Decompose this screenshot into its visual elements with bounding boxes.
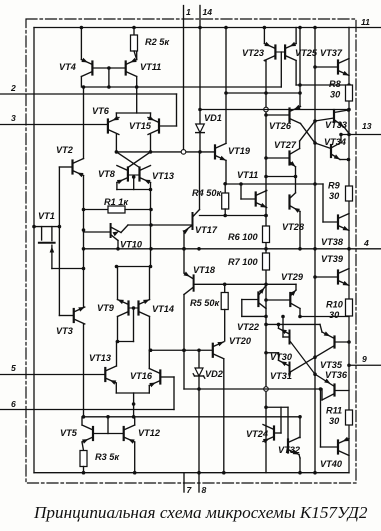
label VT16 [130, 371, 153, 381]
transistor VT1 [39, 227, 55, 269]
node H93 left [224, 91, 228, 95]
label VT1 [38, 211, 55, 221]
node VT34 emitter x349 [347, 158, 351, 162]
wire VT1 top [34, 226, 59, 228]
caption [33, 503, 368, 522]
node VT19 emitter junction [223, 182, 227, 186]
label VT8 [98, 169, 116, 179]
svg-text:VT24: VT24 [246, 429, 268, 439]
wire VT8 emitter stub [116, 183, 118, 190]
node H268 corner [82, 267, 86, 271]
wire VT26 base [266, 114, 290, 116]
wire x299 mid segment [299, 309, 301, 317]
node H151 right [149, 150, 153, 154]
node pin14 rail [198, 26, 202, 30]
svg-text:VT35: VT35 [320, 360, 343, 370]
wire VT27 base [266, 157, 290, 159]
svg-text:3: 3 [11, 113, 16, 123]
svg-text:R5 50к: R5 50к [190, 298, 221, 308]
node H248 x199 [197, 247, 201, 251]
node VT11m base tap [239, 182, 243, 186]
label R4 [192, 188, 223, 198]
wire VT9 emitter stub [117, 267, 119, 300]
transistor VT20 [213, 342, 224, 359]
label VT29 [281, 272, 304, 282]
svg-text:R3 5к: R3 5к [95, 452, 120, 462]
node H85 right [347, 83, 351, 87]
wire H248 bus [84, 248, 316, 250]
diode VD1 [196, 110, 205, 152]
svg-text:4: 4 [363, 238, 369, 248]
wire right output column [348, 28, 350, 473]
wire mid column [150, 190, 152, 267]
label VT33 [325, 120, 347, 130]
node VT31 emitter x266 [264, 351, 268, 355]
wire VT3 emitter down [83, 324, 85, 417]
svg-text:R9: R9 [328, 181, 341, 191]
node H151 left [115, 150, 119, 154]
transistor VT33 [334, 110, 349, 133]
label VT4 [59, 62, 76, 72]
label VD1 [204, 113, 222, 123]
wire H215 link [200, 215, 267, 217]
wire VT15 collector stub [150, 135, 152, 152]
label R7 [228, 257, 259, 267]
label VT13 lower [89, 353, 111, 363]
wire H93 bias [226, 92, 300, 94]
svg-text:R11: R11 [326, 406, 342, 416]
node VT23 emitter rail [263, 26, 267, 30]
wire top supply rail [34, 27, 349, 29]
node H176 right [294, 175, 298, 179]
wire VT6 emitter stub [115, 113, 117, 118]
pin 4 stub [315, 248, 381, 250]
wire VT17 base [128, 224, 193, 226]
label VT39 [321, 254, 344, 264]
wire VT16 collector stub [148, 350, 150, 368]
transistor VT31 [266, 353, 290, 376]
node VT39 base [313, 275, 317, 279]
svg-text:R1 1к: R1 1к [104, 197, 129, 207]
pin 3 stub [0, 124, 108, 126]
label VT2 [56, 145, 74, 155]
wire VT25 emitter up [295, 28, 297, 44]
wire VT23 emitter up [263, 28, 265, 44]
svg-text:R8: R8 [329, 79, 342, 89]
node H93 right [298, 91, 302, 95]
wire H389 bus [184, 388, 322, 390]
wire VT4 VT11 base tie [92, 67, 125, 69]
transistor VT11 middle [256, 191, 267, 208]
svg-text:VT31: VT31 [270, 371, 292, 381]
label VT6 [92, 106, 110, 116]
wire bias column x315 [314, 28, 316, 473]
node R3 bottom [82, 471, 86, 475]
wire VT11m collector [265, 190, 268, 192]
node H284 x225 [223, 283, 227, 287]
wire left rail [33, 28, 35, 473]
wire VT24 base link [274, 407, 281, 433]
node VT33 base [313, 119, 317, 123]
transistor VT34 [331, 135, 349, 160]
transistor VT26 [290, 105, 301, 124]
pin 4 label [363, 238, 369, 248]
wire VT23 VT25 base tie [275, 51, 285, 53]
node VT10 collector [116, 247, 120, 251]
svg-text:5: 5 [11, 363, 16, 373]
node VT20 base x199 [197, 348, 201, 352]
label VT14 [152, 304, 174, 314]
node R4 bottom [223, 214, 227, 218]
transistor VT35 [320, 324, 349, 347]
node pair tie mid [132, 306, 136, 310]
label VT28 [282, 222, 305, 232]
wire VT5 VT12 base tie [93, 433, 124, 435]
wire VT5 emitter stub [82, 442, 84, 451]
svg-text:6: 6 [11, 399, 16, 409]
svg-text:VT11: VT11 [237, 170, 258, 180]
label VT24 [246, 429, 268, 439]
pin 7 label [187, 485, 193, 495]
transistor VT11 top [126, 58, 137, 77]
wire emitter bracket [117, 189, 151, 191]
svg-text:14: 14 [203, 7, 213, 17]
label VT26 [269, 121, 292, 131]
wire VT19 collector up [225, 28, 227, 144]
wire VT4 collector down [80, 77, 82, 88]
svg-text:VT19: VT19 [228, 146, 251, 156]
node VT4 emitter rail [80, 26, 84, 30]
node H266 left [115, 265, 119, 269]
node VT37 base [313, 65, 317, 69]
svg-text:VT40: VT40 [320, 459, 343, 469]
node H407 left [264, 405, 268, 409]
pin 11 label [361, 17, 370, 27]
resistor R6 [263, 226, 270, 243]
svg-text:VT37: VT37 [320, 48, 343, 58]
label VT40 [320, 459, 343, 469]
svg-text:VT6: VT6 [92, 106, 110, 116]
wire tail drop [136, 87, 138, 113]
wire cross diag 2 [128, 152, 151, 168]
svg-text:R6 100: R6 100 [228, 232, 259, 242]
transistor VT10 [111, 224, 128, 249]
svg-text:13: 13 [362, 121, 372, 131]
svg-text:VT38: VT38 [321, 237, 344, 247]
transistor VT32 [288, 438, 299, 455]
node VT2 base junction [58, 225, 62, 229]
wire VT40 base [321, 389, 339, 447]
pin 14 label [203, 7, 213, 17]
wire cross diag VT26 [301, 124, 316, 144]
transistor VT14 [139, 300, 150, 317]
wire VT33 base [315, 118, 334, 121]
label VT37 [320, 48, 343, 58]
svg-text:R4 50к: R4 50к [192, 188, 223, 198]
label R6 [228, 232, 259, 242]
wire VT12 emitter down [134, 442, 136, 473]
label R11 [326, 406, 342, 427]
svg-text:VD2: VD2 [205, 369, 224, 379]
svg-text:VT20: VT20 [229, 336, 252, 346]
transistor VT13 upper [140, 166, 151, 185]
svg-text:VT12: VT12 [138, 428, 161, 438]
wire VT39 base [315, 276, 338, 278]
node H93 x266 [264, 91, 268, 95]
node bracket drop mid [132, 402, 136, 406]
node VD2 rail [197, 471, 201, 475]
svg-text:VT3: VT3 [56, 326, 73, 336]
node H417 right [298, 415, 302, 419]
node VT14 collector [149, 348, 153, 352]
transistor VT6 [108, 116, 119, 135]
svg-text:VT32: VT32 [278, 445, 301, 455]
svg-text:30: 30 [329, 416, 340, 426]
wire center column [265, 61, 267, 473]
wire VT6 collector stub [115, 135, 117, 152]
pin 9 label [362, 354, 367, 364]
wire VT34 base [315, 143, 331, 149]
transistor VT24 [263, 425, 274, 444]
node VD1 top [198, 108, 202, 112]
node H248 x300 [298, 247, 302, 251]
wire H324 bus [266, 323, 320, 325]
wire VT11m base [241, 184, 256, 199]
node H389 x320 [319, 387, 323, 391]
label VT20 [229, 336, 252, 346]
svg-text:VT29: VT29 [281, 272, 304, 282]
svg-text:VT16: VT16 [130, 371, 153, 381]
transistor VT30 [279, 324, 290, 343]
node H85 x299 [298, 83, 302, 87]
transistor VT2 [73, 159, 84, 178]
node base riser top [106, 415, 110, 419]
svg-text:2: 2 [10, 83, 16, 93]
label VT11 middle [237, 170, 258, 180]
node H109 R8 join [347, 108, 351, 112]
svg-text:VT23: VT23 [242, 48, 264, 58]
label R10 [326, 300, 344, 321]
transistor VT4 [81, 58, 92, 77]
node tie mid [132, 175, 136, 179]
pin 1 label [186, 7, 191, 17]
pin 2 stub [0, 93, 177, 95]
wire VT8 VT13 base tie [128, 174, 140, 176]
pin 2 label [10, 83, 16, 93]
label VT34 [324, 137, 346, 147]
svg-text:VT26: VT26 [269, 121, 292, 131]
wire VT22 base L [242, 300, 266, 317]
wire VT16 emitter stub [148, 386, 150, 394]
svg-text:VT30: VT30 [270, 352, 293, 362]
label VT17 [195, 225, 218, 235]
wire VT32 emitter stub [299, 455, 300, 473]
wire VT16 base link [160, 377, 174, 410]
label VT23 [242, 48, 264, 58]
wire VT11 emitter up [136, 51, 138, 60]
wire x299 top segment [299, 28, 301, 107]
label R3 [95, 452, 120, 462]
svg-text:VT4: VT4 [59, 62, 76, 72]
svg-text:VT11: VT11 [140, 62, 161, 72]
resistor R5 [221, 284, 228, 341]
node H248 left end [82, 247, 86, 251]
label VT15 [129, 121, 152, 131]
label VT22 [237, 322, 260, 332]
node H184 x315 [313, 182, 317, 186]
label VT12 [138, 428, 161, 438]
wire VT12 collector stub [134, 417, 136, 425]
pin 8 stub [198, 473, 200, 492]
node VT11 collector [135, 85, 139, 89]
node H248 x150 [149, 247, 153, 251]
node VT17 base x151 [149, 223, 153, 227]
wire VT32 collector stub [299, 437, 300, 439]
label VT11 top [140, 62, 161, 72]
svg-text:VT13: VT13 [89, 353, 111, 363]
resistor R8 [346, 85, 353, 101]
pin 11 stub [349, 27, 381, 29]
wire VT11 collector down [136, 77, 138, 88]
svg-text:VT33: VT33 [325, 120, 347, 130]
node VT1 rail junction [32, 225, 36, 229]
node base tie mid [107, 66, 111, 70]
wire VT2 base column [58, 167, 60, 316]
transistor VT19 [215, 143, 226, 160]
node P13 x349 [347, 133, 351, 137]
transistor VT13 lower [105, 366, 116, 385]
node H248 x184 [182, 247, 186, 251]
svg-text:VT15: VT15 [129, 121, 152, 131]
node VT4 collector [82, 85, 86, 89]
svg-text:VT10: VT10 [120, 240, 143, 250]
wire bottom rail [34, 472, 349, 474]
wire VT3 base [59, 315, 73, 317]
label VT30 [270, 352, 293, 362]
wire lower bracket [116, 392, 149, 394]
transistor VT5 [82, 425, 93, 444]
node x315 rail bottom [313, 471, 317, 475]
pin 9 stub [349, 364, 381, 366]
wire VT28 emitter stub [299, 212, 301, 249]
wire VT32 base drop [287, 407, 289, 439]
svg-text:VT13: VT13 [152, 171, 174, 181]
label R2 [145, 37, 170, 47]
svg-text:VT18: VT18 [193, 265, 216, 275]
svg-text:VT34: VT34 [324, 137, 346, 147]
wire VT10 base [84, 231, 111, 233]
node VT12 emitter rail [133, 471, 137, 475]
wire VT13 emitter stub [150, 183, 152, 190]
resistor R11 [346, 410, 353, 425]
label VT25 [295, 48, 318, 58]
svg-text:9: 9 [362, 354, 367, 364]
node R1 right [149, 208, 153, 212]
svg-text:VT39: VT39 [321, 254, 344, 264]
wire H109 bias line [200, 109, 349, 111]
node H284 x266 [264, 283, 268, 287]
label VT36 [325, 370, 348, 380]
pin 1 stub [183, 6, 185, 152]
wire VT30 base link [283, 317, 290, 338]
wire VT19 emitter stub [224, 160, 227, 183]
node VT22 base tie [264, 315, 268, 319]
node VT5 collector [82, 415, 86, 419]
pin 5 label [11, 363, 16, 373]
label VT35 [320, 360, 343, 370]
transistor VT22 [258, 286, 266, 309]
label VT10 [120, 240, 143, 250]
diode VD2 [193, 350, 205, 472]
svg-text:Принципиальная схема микросхем: Принципиальная схема микросхемы К157УД2 [33, 503, 368, 522]
transistor VT27 [290, 141, 300, 177]
label VT9 [97, 303, 115, 313]
wire VT2 base [59, 166, 72, 168]
node VT18 base x350 [182, 348, 186, 352]
wire VT15 base [159, 94, 177, 126]
node VT27 base [264, 156, 268, 160]
transistor VT3 [74, 307, 85, 324]
node H109 right [347, 108, 351, 112]
node x315 rail top [313, 26, 317, 30]
transistor VT12 [124, 425, 135, 444]
svg-text:VT14: VT14 [152, 304, 174, 314]
node x266 H215 [264, 214, 268, 218]
node diag1 x315 [313, 372, 317, 376]
wire VT14 emitter stub [149, 267, 151, 300]
label VT19 [228, 146, 251, 156]
node bracket right [149, 188, 153, 192]
wire H151 bus [116, 151, 215, 153]
pin 6 stub [0, 409, 174, 411]
svg-text:VT9: VT9 [97, 303, 115, 313]
wire VT30 collector diag [290, 341, 335, 387]
svg-text:8: 8 [202, 485, 207, 495]
label VT31 [270, 371, 292, 381]
node VD1 bottom [198, 150, 202, 154]
pin 6 label [11, 399, 16, 409]
node P9 x349 [347, 363, 351, 367]
svg-text:30: 30 [329, 310, 340, 320]
label VT3 [56, 326, 73, 336]
label R1 [104, 197, 129, 207]
wire base tie drop [108, 68, 110, 87]
label VT38 [321, 237, 344, 247]
svg-text:VT22: VT22 [237, 322, 260, 332]
node H176 left [264, 175, 268, 179]
wire VT20 base [151, 349, 213, 351]
node H266 right [149, 265, 153, 269]
label R5 [190, 298, 221, 308]
wire x299 low segment [299, 417, 301, 438]
node VT20 base x150 [149, 348, 153, 352]
label VT5 [60, 428, 78, 438]
node VT32 emitter rail [298, 471, 302, 475]
wire pair tie drop [133, 308, 135, 342]
svg-text:30: 30 [330, 90, 341, 100]
node H324 x277 [277, 323, 281, 327]
wire VT14 collector stub [149, 317, 151, 351]
wire cross diag VT27 [300, 121, 315, 141]
resistor R2 [131, 28, 138, 60]
wire R1 left [84, 209, 109, 211]
transistor VT9 [118, 300, 129, 317]
svg-text:VT2: VT2 [56, 145, 74, 155]
svg-text:1: 1 [186, 7, 191, 17]
wire VT23 collector down [264, 60, 266, 63]
resistor R7 [263, 253, 270, 270]
svg-text:VT8: VT8 [98, 169, 116, 179]
